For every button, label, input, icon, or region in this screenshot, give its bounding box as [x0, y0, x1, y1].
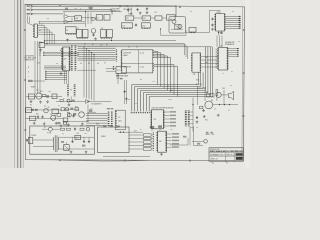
wire DIN 4 [86, 122, 108, 124]
transistor Q11 [67, 99, 70, 102]
wire sync L path b [161, 34, 187, 36]
wire Z1 output drop [54, 34, 56, 44]
svg-text:VR1: VR1 [76, 137, 79, 139]
capacitor C9 [41, 115, 43, 118]
wire staircase drop A6 [176, 66, 178, 96]
IC Z40 CPU [63, 47, 70, 71]
regulator VR1 [75, 135, 81, 139]
label CR2 [61, 141, 64, 143]
wire data bus D1 [78, 48, 116, 50]
ground row lower [60, 124, 63, 127]
label P2 ref2 [111, 108, 114, 109]
bus tap dashes lower [45, 71, 47, 80]
Z17 top pins [40, 42, 45, 44]
wire +5V feed [127, 8, 129, 13]
Z42 pin labels [215, 49, 217, 69]
svg-text:INT: INT [56, 63, 59, 65]
wire Q9 to speaker [221, 94, 228, 96]
wire Z3 to osc [82, 17, 97, 19]
wire data bus d0 [45, 71, 67, 73]
wire staircase run A6 [149, 96, 213, 98]
svg-text:Y1: Y1 [97, 17, 99, 19]
resistor R21 [67, 128, 71, 130]
connector P2 col B [111, 112, 113, 127]
wire Z30 out 2 [164, 118, 169, 120]
wire comb out 1 [190, 115, 193, 117]
svg-text:C18: C18 [134, 103, 137, 105]
capacitor C8 [37, 115, 39, 118]
wire RAM drop A6 [212, 47, 214, 97]
svg-text:RF: RF [190, 11, 192, 13]
Z41 left pins [191, 54, 193, 72]
connector P5 power [28, 138, 33, 144]
wire CPU to kb connector [64, 71, 66, 84]
right frame inner doubled line [241, 7, 244, 160]
ground divider [125, 98, 128, 101]
IC Z23 sync [30, 116, 36, 120]
label Z30 net 3 [170, 122, 177, 124]
label Z35 net 4 [172, 146, 179, 148]
IC Z16 sync gen [142, 23, 151, 28]
tick mark right [226, 162, 228, 163]
label above Z2 [65, 8, 68, 10]
svg-text:Q6: Q6 [50, 114, 52, 116]
svg-text:P4: P4 [232, 11, 234, 13]
ground audio a [203, 115, 206, 118]
border zone tick marks [59, 5, 61, 7]
wire DIN 3 [86, 120, 108, 122]
wire control bus RD [45, 44, 186, 46]
wire to Z21 b [106, 70, 116, 72]
wire vertical video bus [39, 41, 41, 94]
wire RAM exp 4 [228, 56, 237, 58]
bridge rectifier CR2 [64, 145, 70, 151]
wire Z29 to RAM 2 [221, 36, 223, 48]
svg-text:R13 100: R13 100 [196, 84, 202, 86]
capacitor C31 [202, 109, 204, 112]
svg-text:D7: D7 [104, 62, 106, 64]
wire Z29 bottom a [218, 31, 220, 36]
svg-text:R17: R17 [40, 91, 43, 93]
svg-text:16: 16 [222, 73, 224, 75]
wire data bus D5 [78, 55, 116, 57]
ground C2 [130, 12, 133, 15]
wire video row2 [27, 109, 62, 111]
wire secondary b [59, 148, 95, 150]
svg-text:LESS 1 KIT: LESS 1 KIT [210, 159, 218, 161]
ground audio b [217, 114, 220, 117]
IC Z29 character generator [216, 14, 225, 31]
wire vertical video bus [37, 41, 39, 94]
resistor R3 [35, 109, 38, 111]
svg-text:Z21: Z21 [117, 70, 120, 72]
wire RAM exp 2 [228, 52, 237, 54]
wire kb row 2 [129, 141, 144, 143]
wire branch to DIN [88, 111, 97, 113]
IC Z41 RAM ctl [192, 53, 201, 72]
transistor Q13 [68, 113, 72, 117]
resistor pack RP1-1 [143, 137, 151, 139]
wire staircase run A1 [135, 86, 201, 88]
audio jack breaks [219, 104, 220, 105]
wire Z41-Z42 3 [201, 66, 218, 68]
svg-text:VIDEO: VIDEO [31, 86, 37, 88]
wire C21 stub [72, 137, 74, 140]
wire RAM drop A1 [200, 73, 202, 87]
wire data bus D0 [78, 46, 116, 48]
wire to data comb [33, 80, 46, 82]
svg-text:D1: D1 [231, 71, 233, 73]
Z40 right pins [69, 48, 71, 70]
wire Q8 base feed [204, 88, 206, 101]
ground C4 [146, 11, 149, 14]
wire Z35 out 4 [167, 146, 172, 148]
svg-text:P3: P3 [30, 105, 32, 107]
component L1 video [52, 94, 57, 99]
svg-text:R60: R60 [205, 120, 208, 122]
svg-text:OE: OE [136, 47, 138, 49]
resistor R26 [72, 100, 75, 102]
wire modulator out [186, 32, 210, 34]
Z42 right pins [227, 48, 229, 69]
wire corner drop a [39, 21, 41, 24]
box X1 in modulator [175, 25, 181, 30]
wire Z30 out 1 [164, 115, 169, 117]
wire kb row 1 [129, 138, 144, 140]
wire comb out 4 [190, 126, 193, 128]
keyboard comb connector col A [185, 111, 187, 127]
ground cassette run [68, 103, 71, 106]
wire staircase drop A4 [170, 58, 172, 93]
wire RAM drop A0 [197, 73, 199, 85]
ground PS b [85, 151, 88, 154]
ground video row1 b [39, 101, 42, 104]
label J1-A [27, 5, 30, 7]
Z29 right pins [224, 14, 226, 30]
svg-text:Z11: Z11 [126, 18, 129, 20]
IC Z18 buffer [189, 28, 196, 33]
gate Z2b [64, 20, 69, 24]
capacitor C3 [137, 8, 139, 11]
wire cassette vertical [87, 105, 89, 122]
wire staircase drop A1 [160, 53, 162, 87]
edge connector P1 col A [71, 46, 73, 71]
title block divider 2 [209, 155, 243, 157]
title block outline [209, 148, 243, 161]
capacitor C11 [124, 90, 126, 93]
svg-text:SP: SP [230, 85, 232, 87]
wire Z13-Z14 [162, 17, 167, 19]
label Z30 net 1 [170, 115, 177, 117]
label Z30 net 4 [170, 125, 177, 127]
wire +5V rail top [63, 11, 122, 13]
title block divider 1 [209, 152, 243, 154]
ground C6 [211, 28, 214, 31]
capacitor C2 [127, 9, 129, 12]
ground C12 [196, 121, 199, 124]
svg-text:T2: T2 [121, 64, 123, 66]
wire RAM exp 3 [228, 54, 237, 56]
svg-text:Z7: Z7 [77, 28, 79, 30]
wire below ROM [117, 74, 119, 84]
Z30 left pins [150, 111, 152, 129]
jack J3 [204, 140, 208, 144]
capacitor C20 [74, 128, 76, 131]
wire video data 5 [226, 25, 240, 27]
wire P2 to keyboard rows [118, 131, 143, 133]
bus tap dashes upper [43, 52, 45, 57]
wire ctrl bus 1 [44, 67, 66, 69]
wire audio vertical 2 [197, 86, 199, 105]
label Z35 net 0 [172, 133, 179, 135]
wire net from J1-B [33, 9, 112, 11]
ground video row1 c [46, 100, 49, 103]
wire video data 3 [226, 21, 240, 23]
wire Z1 output drop [46, 28, 48, 44]
wire RP1 to Z35 0 [151, 134, 153, 136]
wire staircase run A0 [132, 84, 199, 86]
component R28 [57, 113, 61, 116]
wire data bus d3 [45, 77, 67, 79]
label Z35 net 2 [172, 140, 179, 142]
svg-text:Z11: Z11 [128, 14, 131, 16]
wire speaker return [223, 90, 225, 105]
capacitor C5 [211, 18, 213, 21]
svg-text:Z40: Z40 [64, 59, 67, 61]
capacitor C12 [196, 116, 198, 119]
svg-text:Z15: Z15 [122, 25, 125, 27]
resistor R1 [42, 95, 46, 97]
transistor Q7 [79, 112, 85, 118]
wire RP1 to Z35 3 [151, 145, 153, 147]
wire modulator internal [171, 29, 183, 31]
wire junction dots [83, 46, 84, 47]
wire staircase run A5 [146, 94, 210, 96]
wire addr vertical A4 [93, 55, 95, 101]
wire into Z35 top [151, 129, 153, 132]
label J1-C [27, 13, 30, 15]
label P5 [26, 139, 28, 141]
transistor Q5 [44, 109, 48, 113]
keyboard connector P1 col A [67, 85, 69, 97]
tick mark left [212, 162, 215, 163]
wire Z1 output drop [44, 26, 46, 45]
svg-text:R31: R31 [75, 107, 78, 109]
power supply box outline [30, 126, 95, 154]
border frame [25, 4, 245, 160]
wire staircase run A4 [143, 92, 208, 94]
wire Z35 aux riser [187, 138, 189, 145]
IC Z8 counter [83, 30, 88, 38]
connector J1 pin A [31, 5, 33, 7]
Z15 bottom pins [122, 27, 131, 29]
wire Z35 out 1 [167, 136, 172, 138]
wire C22 stub [83, 137, 85, 140]
wire cassette amp row [64, 108, 80, 110]
Z35 left pin labels [152, 133, 154, 151]
wire staircase down A2 [137, 89, 139, 112]
resistor R20 [61, 128, 65, 130]
resistor R25 on cassette run [60, 99, 63, 101]
IC Z7 counter [77, 30, 82, 38]
svg-text:40: 40 [238, 41, 240, 43]
wire staircase down A5 [145, 95, 147, 112]
wire staircase run A2 [138, 88, 204, 90]
wire RAM drop A3 [205, 47, 207, 91]
svg-text:Q7: Q7 [63, 98, 65, 100]
wire staircase drop A0 [157, 51, 159, 84]
wire xtal drop [85, 12, 87, 28]
IC Z14 divider [167, 15, 176, 20]
wire Z2b riser [71, 18, 73, 22]
wire Z12-Z13 [151, 17, 155, 19]
component below Z29 [220, 32, 223, 34]
svg-text:D6: D6 [97, 63, 99, 65]
wire video data 4 [226, 23, 240, 25]
component L2 [61, 108, 65, 111]
ground below Z6 [66, 39, 69, 42]
Z35 right pins [165, 132, 167, 151]
wire RP1 to Z35 4 [151, 148, 153, 150]
wire long bottom run [103, 156, 150, 158]
connector J1 pin C [31, 13, 33, 15]
ground Z35 [160, 153, 163, 156]
wire data bus d4 [45, 79, 67, 81]
wire Z30 out 4 [164, 125, 169, 127]
wire Z1 output drop [51, 32, 53, 44]
wire addr vertical A1 [86, 49, 88, 98]
keyboard comb connector col B [188, 111, 190, 127]
IC Z42 RAM array [218, 48, 228, 71]
IC Z21 cassette ctl [116, 67, 126, 74]
expansion connector pins [237, 48, 239, 57]
svg-text:Z30-5: Z30-5 [168, 99, 172, 101]
wire ROM fan A3 [154, 55, 168, 57]
svg-text:Q5: Q5 [48, 107, 50, 109]
IC Z22 video amp [28, 94, 34, 99]
speaker SP1 [229, 91, 234, 100]
ground Z17 [39, 49, 42, 52]
resistor R2 [32, 109, 35, 111]
label J1-B [27, 9, 30, 11]
bottom frame scan warp curve [55, 160, 150, 161]
wire cassette out [90, 100, 112, 102]
capacitor C21 [71, 140, 73, 143]
wire DIN 5 [86, 125, 108, 127]
Z17 lower tap dashes [39, 50, 41, 56]
svg-text:P2: P2 [119, 117, 121, 119]
svg-text:Z1-8: Z1-8 [46, 18, 49, 20]
svg-text:Q5: Q5 [44, 106, 46, 108]
svg-text:R8: R8 [140, 79, 142, 81]
Z40 pin number labels [61, 48, 63, 70]
svg-text:Q6: Q6 [54, 115, 56, 117]
wire ctrl bus 0 [44, 65, 66, 67]
wire Z11-Z12 [134, 17, 142, 19]
ROM right pins lower [152, 63, 154, 71]
wire RP1 to Z35 1 [151, 138, 153, 140]
svg-text:R4: R4 [90, 9, 92, 11]
capacitor C10 [72, 115, 74, 118]
wire to volume pot [194, 145, 204, 147]
wire Z1 output [38, 31, 52, 33]
svg-text:Z16: Z16 [142, 25, 145, 27]
svg-text:Z12: Z12 [143, 18, 146, 20]
ground below Q1 [94, 38, 97, 41]
svg-text:C40: C40 [36, 90, 39, 92]
svg-text:K1: K1 [140, 129, 142, 131]
svg-text:Z13: Z13 [154, 12, 157, 14]
svg-text:+5V: +5V [136, 6, 139, 8]
transistor Q9 [216, 92, 221, 97]
svg-text:Z2: Z2 [64, 13, 66, 15]
svg-text:T2: T2 [58, 106, 60, 108]
wire plug to T1 a [33, 139, 54, 141]
wire ROM fan A2 [154, 53, 164, 55]
capacitor C22 [83, 140, 85, 143]
label Z30 net 0 [170, 111, 177, 113]
wire data bus d1 [45, 73, 67, 75]
IC Z35 keyboard encoder [158, 131, 167, 152]
svg-text:CAPS IN UF: CAPS IN UF [25, 59, 34, 62]
ROM input dashes [116, 50, 118, 63]
IC Z5 clock buffer [104, 15, 110, 20]
wire staircase down A6 [148, 97, 150, 112]
capacitor C4 [146, 7, 148, 10]
transistor Q1 [91, 29, 96, 34]
wire video row1 [26, 96, 62, 98]
gate Z4 osc inverter [92, 17, 96, 21]
wire drop J1-B [111, 10, 113, 15]
resistor R14 [200, 106, 203, 109]
capacitor C6 [211, 24, 213, 27]
svg-text:CR3: CR3 [48, 91, 51, 93]
wire Z29 bottom b [221, 31, 223, 34]
Z35 left pins [156, 132, 158, 151]
wire to Z21 [106, 68, 116, 70]
wire cassette row lower [63, 120, 88, 122]
Z16 bottom pins [142, 27, 149, 29]
wire Z35 out 3 [167, 143, 172, 145]
wire into Z35 top 2 [159, 128, 161, 131]
wire video data 1 [226, 18, 240, 20]
resistor pack RP1-2 [143, 141, 151, 143]
wire RD drop to Z41 [185, 45, 187, 57]
IC Z11 divider [125, 16, 134, 20]
ground PS a [70, 151, 73, 154]
Z40 left pins [62, 48, 64, 70]
wire video data 2 [226, 20, 240, 22]
component on CRT box a [103, 125, 106, 127]
wire ROM fan A5 [154, 64, 174, 66]
svg-text:Z41: Z41 [193, 74, 196, 76]
component pair at cassette junction [89, 109, 92, 111]
component T2 driver [52, 109, 58, 114]
wire AC line 2 [52, 128, 60, 130]
svg-text:Z35: Z35 [170, 129, 173, 131]
wire AC line [42, 128, 48, 130]
svg-text:Z6: Z6 [66, 30, 68, 32]
Z1 right pins [37, 25, 39, 37]
svg-text:+5V: +5V [76, 133, 79, 135]
Z6 bottom pins [67, 33, 76, 35]
resistor R12 [216, 90, 218, 96]
wire staircase drop A3 [166, 56, 168, 91]
wire staircase down A0 [131, 85, 133, 112]
wire kb row 4 [129, 148, 144, 150]
ground video row3 b [43, 122, 46, 125]
IC Z9 counter [100, 30, 106, 38]
